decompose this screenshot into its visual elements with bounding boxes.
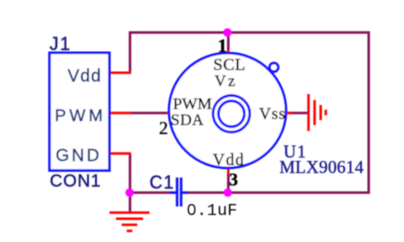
U1 pin Vss red stub: [287, 112, 292, 115]
wire Vdd net: top loop from J1 Vdd up, across top, down right side, along bottom to capacitor: [130, 33, 369, 193]
ground symbol (below J1 GND junction): [110, 213, 150, 231]
wire pin1 vertical from top junction to U1 pin 1: [227, 33, 230, 51]
svg-text:3: 3: [229, 170, 238, 190]
U1 sensor eye inner circle: [219, 101, 245, 127]
capacitor C1 leads (blue): [170, 191, 177, 194]
node junction dot left (GND/bottom wire): [125, 188, 133, 196]
svg-text:Vss: Vss: [259, 104, 286, 123]
svg-text:Vz: Vz: [215, 73, 238, 90]
svg-text:SCL: SCL: [213, 55, 245, 74]
wire pin3 vertical from U1 pin 3 down to bottom junction: [227, 173, 230, 193]
U1 pin 3 red stub: [227, 169, 230, 174]
svg-text:Vdd: Vdd: [213, 150, 245, 169]
connector J1 body: [50, 53, 110, 171]
connector J1 pin Vdd (red): [109, 71, 131, 74]
svg-text:PWM: PWM: [173, 94, 212, 113]
svg-text:Vdd: Vdd: [68, 66, 102, 86]
op-amp U1 body (MLX90614 sensor circle): [169, 53, 286, 168]
svg-text:2: 2: [159, 118, 168, 138]
svg-text:1: 1: [218, 36, 228, 57]
svg-text:SDA: SDA: [171, 112, 204, 129]
U1 tab circle: [270, 63, 279, 72]
capacitor C1 plates: [176, 178, 179, 207]
wire pin2 horizontal from J1 PWM to U1 pin 2: [130, 112, 167, 115]
U1 pin 1 red stub: [227, 50, 230, 55]
node junction dot bottom (pin3/bottom wire): [224, 188, 232, 196]
svg-text:CON1: CON1: [50, 171, 101, 191]
ground symbol (right, rotated, at U1 Vss): [309, 94, 326, 131]
svg-text:0.1uF: 0.1uF: [187, 201, 238, 220]
connector J1 pin PWM (red): [109, 112, 131, 115]
connector J1 pin GND (red): [109, 152, 131, 155]
svg-text:PWM: PWM: [55, 106, 106, 125]
wire GND: from J1 GND pin down to junction: [129, 154, 132, 213]
svg-text:C1: C1: [150, 173, 175, 193]
wire Vss: from U1 Vss pin to ground symbol: [289, 112, 309, 115]
svg-text:J1: J1: [50, 34, 72, 54]
wire bottom-left segment from capacitor to GND junction: [130, 191, 170, 194]
node junction dot top (pin1/top wire): [223, 28, 231, 36]
U1 pin 2 red stub: [167, 112, 172, 115]
U1 sensor eye outer circle: [213, 95, 250, 132]
svg-text:MLX90614: MLX90614: [280, 157, 364, 177]
svg-text:GND: GND: [56, 145, 102, 165]
